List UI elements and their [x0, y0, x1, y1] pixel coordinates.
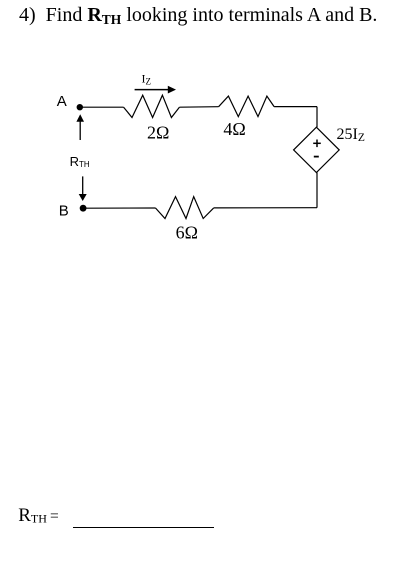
dependent source diamond 25Iz [294, 127, 340, 172]
wire A to 2-ohm resistor [83, 106, 124, 108]
current Iz arrow [135, 86, 176, 94]
svg-text:RTH: RTH [70, 154, 90, 169]
wire 4-ohm to top-right corner [274, 106, 317, 108]
svg-text:A: A [57, 93, 67, 110]
wire top-right corner down to source [316, 107, 318, 128]
svg-text:6Ω: 6Ω [176, 223, 198, 243]
arrow down toward B [79, 176, 87, 201]
svg-text:25IZ: 25IZ [337, 126, 365, 144]
answer label RTH = [18, 505, 59, 527]
node A dot [77, 104, 83, 110]
resistor 6-ohm [156, 197, 214, 219]
source minus sign [314, 156, 319, 158]
svg-text:4Ω: 4Ω [223, 119, 245, 139]
svg-text:IZ: IZ [142, 72, 152, 87]
wire 6-ohm to node B [86, 207, 156, 209]
wire source down to bottom-right corner [316, 173, 318, 208]
svg-text:B: B [59, 202, 69, 219]
source plus sign [313, 140, 321, 148]
node B dot [80, 205, 87, 212]
resistor 2-ohm [124, 95, 180, 117]
answer blank line [73, 527, 214, 529]
title [19, 4, 377, 28]
svg-text:2Ω: 2Ω [147, 123, 169, 143]
resistor 4-ohm [219, 96, 275, 117]
wire between 2-ohm and 4-ohm [179, 106, 218, 109]
wire bottom-right corner to 6-ohm [214, 207, 317, 209]
arrow up toward A [76, 114, 84, 140]
